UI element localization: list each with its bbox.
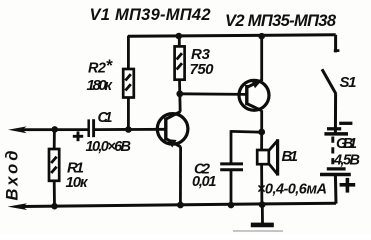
scan artifact line: [233, 230, 283, 232]
wire top rail: [128, 35, 336, 37]
transistor V1 (МП39-МП42, pnp): [157, 94, 188, 206]
svg-text:10к: 10к: [66, 174, 89, 191]
capacitor C2: [220, 130, 262, 205]
svg-text:Вход: Вход: [4, 151, 22, 201]
svg-text:В1: В1: [282, 148, 299, 165]
svg-text:GB1: GB1: [336, 136, 357, 152]
node: V2 collector / C2 / B1 junction: [258, 129, 265, 136]
node: V1 collector / R3 / V2 base junction: [176, 90, 183, 97]
ground: [251, 205, 274, 225]
node: V1 emitter bottom junction: [177, 202, 184, 209]
svg-text:180к: 180к: [87, 77, 114, 94]
input terminal arrow (upper): [8, 126, 88, 133]
svg-text:C1: C1: [98, 110, 113, 126]
node: C2 bottom junction: [228, 202, 235, 209]
loudspeaker B1: [257, 132, 277, 205]
svg-text:×0,4-0,6мА: ×0,4-0,6мА: [257, 182, 327, 198]
node: top rail / R3 junction: [176, 33, 183, 40]
svg-text:V2 МП35-МП38: V2 МП35-МП38: [225, 12, 337, 30]
node: ground junction on bottom rail: [259, 201, 266, 208]
svg-text:*: *: [106, 56, 114, 75]
wire: R3 bottom to V2 base: [180, 92, 247, 95]
resistor R3: [175, 36, 185, 94]
svg-text:10,0×6В: 10,0×6В: [86, 139, 132, 155]
polarity + for GB1: [340, 178, 356, 193]
node: R2 / C1 / V1 base junction: [125, 126, 132, 133]
node: R1 bottom junction: [51, 203, 58, 210]
transistor V2 (МП35-МП38, npn): [239, 36, 269, 132]
svg-text:750: 750: [190, 61, 215, 78]
capacitor C1 (electrolytic): [89, 119, 166, 137]
svg-text:R2: R2: [88, 61, 106, 77]
node: input / R1 top junction: [51, 126, 58, 133]
resistor R2: [123, 36, 134, 130]
battery GB1: [320, 123, 352, 203]
resistor R1: [49, 129, 59, 206]
switch S1: [322, 35, 339, 135]
svg-text:0,01: 0,01: [192, 174, 217, 190]
node: top rail / V2 emitter junction: [258, 33, 265, 40]
svg-text:V1 МП39-МП42: V1 МП39-МП42: [90, 6, 211, 24]
polarity + for C1: [73, 131, 83, 141]
svg-text:4,5В: 4,5В: [333, 152, 360, 168]
input terminal arrow (lower) / bottom rail: [8, 203, 337, 210]
svg-text:S1: S1: [340, 74, 357, 91]
